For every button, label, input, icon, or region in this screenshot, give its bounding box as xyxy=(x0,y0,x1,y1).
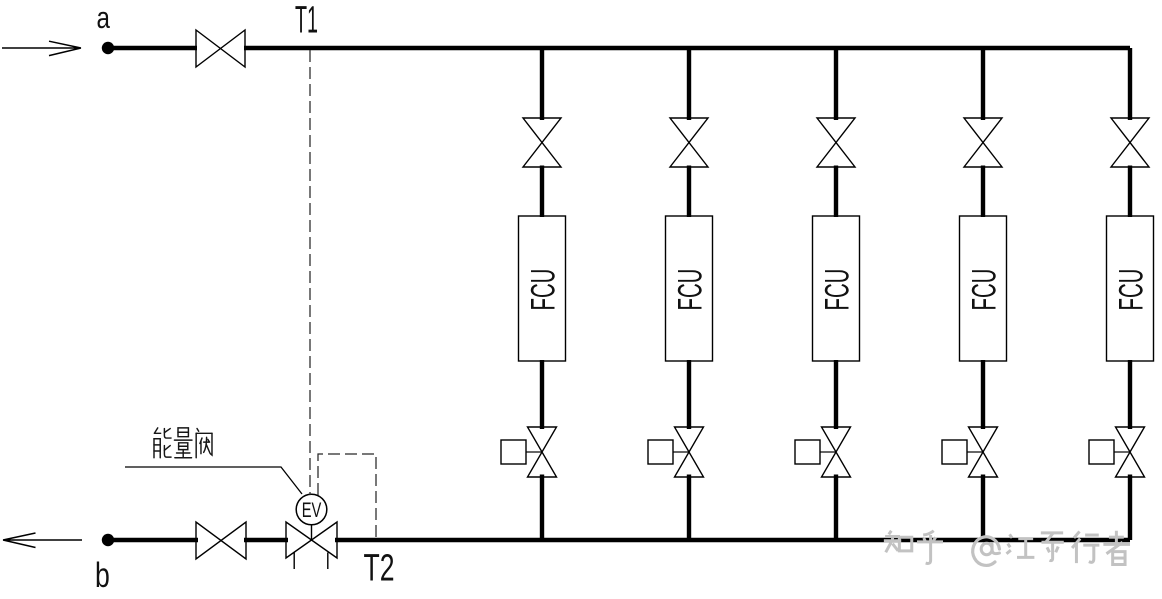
svg-text:b: b xyxy=(95,555,110,594)
svg-text:FCU: FCU xyxy=(671,269,709,311)
svg-text:T2: T2 xyxy=(364,546,395,589)
svg-text:EV: EV xyxy=(302,498,322,521)
svg-text:FCU: FCU xyxy=(818,269,856,311)
svg-text:FCU: FCU xyxy=(524,269,562,311)
svg-text:T1: T1 xyxy=(295,0,318,41)
svg-text:FCU: FCU xyxy=(965,269,1003,311)
svg-text:FCU: FCU xyxy=(1112,269,1150,311)
svg-text:a: a xyxy=(97,0,111,35)
